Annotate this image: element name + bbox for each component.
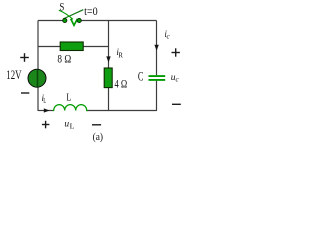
svg-text:R: R [118, 51, 123, 59]
svg-text:t=0: t=0 [84, 4, 98, 18]
svg-text:L: L [66, 91, 71, 103]
svg-text:8 Ω: 8 Ω [57, 51, 71, 65]
svg-text:C: C [138, 69, 144, 83]
svg-text:L: L [43, 97, 46, 105]
svg-text:12V: 12V [6, 68, 21, 82]
svg-text:S: S [59, 0, 64, 14]
svg-text:L: L [70, 121, 75, 130]
svg-text:4 Ω: 4 Ω [115, 77, 128, 91]
svg-text:u: u [64, 119, 69, 129]
svg-text:(a): (a) [93, 131, 104, 143]
